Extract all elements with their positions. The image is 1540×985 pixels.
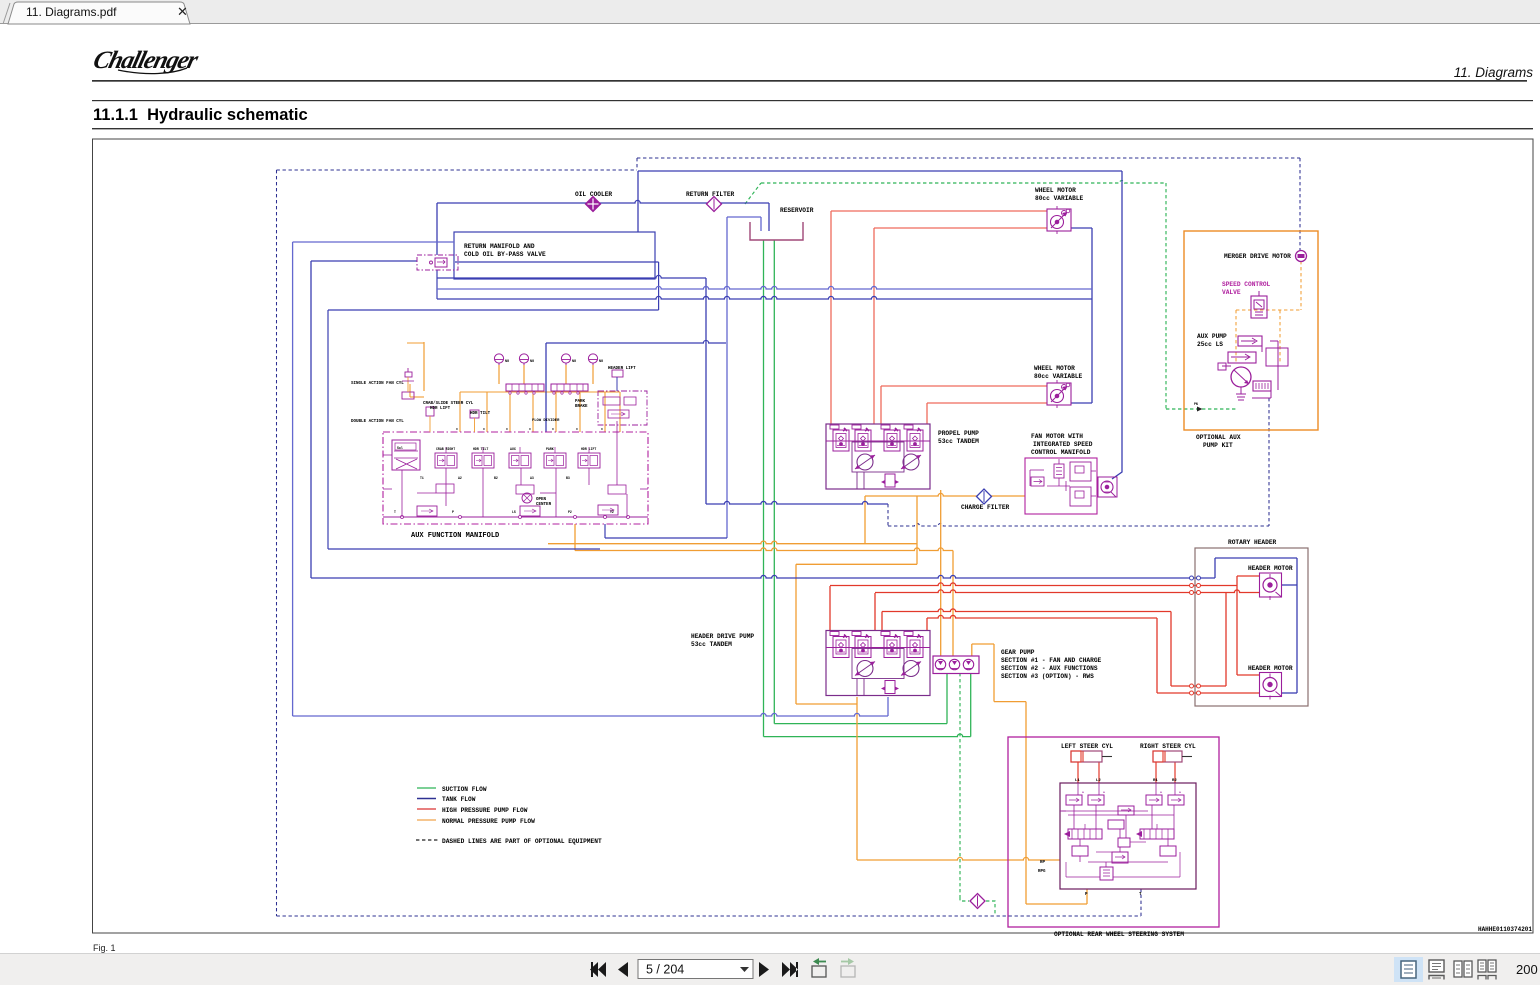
svg-text:RPG: RPG bbox=[1038, 870, 1046, 874]
svg-text:A3: A3 bbox=[530, 476, 534, 480]
svg-text:HEADER MOTOR: HEADER MOTOR bbox=[1248, 565, 1293, 572]
svg-text:DOUBLE ACTION FAN CYL: DOUBLE ACTION FAN CYL bbox=[351, 420, 404, 424]
svg-text:GEAR PUMP: GEAR PUMP bbox=[1001, 649, 1035, 656]
svg-text:PUMP KIT: PUMP KIT bbox=[1203, 442, 1233, 449]
svg-text:a: a bbox=[1160, 791, 1162, 794]
svg-text:a: a bbox=[1103, 791, 1105, 794]
svg-text:PARK: PARK bbox=[546, 447, 554, 451]
svg-text:RESERVOIR: RESERVOIR bbox=[780, 207, 814, 214]
svg-text:HDR LIFT: HDR LIFT bbox=[581, 447, 596, 451]
svg-text:PARK: PARK bbox=[575, 400, 586, 404]
svg-text:53cc TANDEM: 53cc TANDEM bbox=[691, 641, 732, 648]
svg-text:LEFT STEER CYL: LEFT STEER CYL bbox=[1061, 743, 1113, 750]
svg-text:OIL COOLER: OIL COOLER bbox=[575, 191, 612, 198]
svg-text:5 / 204: 5 / 204 bbox=[646, 963, 684, 977]
svg-text:200: 200 bbox=[1516, 962, 1538, 977]
svg-text:X: X bbox=[456, 428, 458, 431]
svg-text:80cc VARIABLE: 80cc VARIABLE bbox=[1034, 373, 1083, 380]
svg-text:Sol: Sol bbox=[397, 446, 403, 450]
svg-text:LS: LS bbox=[512, 510, 516, 514]
svg-text:NG: NG bbox=[572, 360, 576, 364]
svg-text:NG: NG bbox=[505, 360, 509, 364]
svg-text:R1: R1 bbox=[1153, 779, 1158, 783]
svg-text:AUX FUNCTION MANIFOLD: AUX FUNCTION MANIFOLD bbox=[411, 532, 499, 540]
svg-text:OPTIONAL REAR WHEEL STEERING S: OPTIONAL REAR WHEEL STEERING SYSTEM bbox=[1054, 931, 1184, 938]
svg-text:R2: R2 bbox=[1172, 779, 1177, 783]
svg-text:B2: B2 bbox=[494, 476, 498, 480]
svg-text:NORMAL PRESSURE PUMP FLOW: NORMAL PRESSURE PUMP FLOW bbox=[442, 818, 535, 825]
svg-text:RETURN FILTER: RETURN FILTER bbox=[686, 191, 735, 198]
svg-text:RIGHT STEER CYL: RIGHT STEER CYL bbox=[1140, 743, 1196, 750]
svg-text:HIGH PRESSURE PUMP FLOW: HIGH PRESSURE PUMP FLOW bbox=[442, 807, 528, 814]
svg-text:T2: T2 bbox=[610, 510, 614, 514]
svg-text:A2: A2 bbox=[458, 476, 462, 480]
svg-text:a: a bbox=[1082, 791, 1084, 794]
svg-text:X: X bbox=[529, 428, 531, 431]
svg-text:HEADER MOTOR: HEADER MOTOR bbox=[1248, 665, 1293, 672]
svg-text:a: a bbox=[1179, 791, 1181, 794]
svg-text:SINGLE ACTION FAN CYL: SINGLE ACTION FAN CYL bbox=[351, 382, 404, 386]
svg-text:ROTARY HEADER: ROTARY HEADER bbox=[1228, 539, 1277, 546]
svg-text:CRAB/SLIDE STEER CYL: CRAB/SLIDE STEER CYL bbox=[423, 401, 474, 406]
svg-text:TANK FLOW: TANK FLOW bbox=[442, 796, 476, 803]
svg-text:RP: RP bbox=[1040, 861, 1046, 865]
svg-text:HDR TILT: HDR TILT bbox=[470, 412, 491, 416]
svg-text:X: X bbox=[552, 428, 554, 431]
svg-text:T: T bbox=[394, 510, 396, 514]
svg-text:OPEN: OPEN bbox=[536, 498, 547, 502]
svg-text:RETURN MANIFOLD AND: RETURN MANIFOLD AND bbox=[464, 243, 535, 250]
svg-text:T: T bbox=[1139, 893, 1142, 897]
svg-text:HAHHE0110374201: HAHHE0110374201 bbox=[1478, 926, 1532, 933]
svg-text:WHEEL MOTOR: WHEEL MOTOR bbox=[1035, 187, 1076, 194]
svg-text:80cc VARIABLE: 80cc VARIABLE bbox=[1035, 195, 1084, 202]
svg-text:X: X bbox=[506, 428, 508, 431]
svg-text:53cc TANDEM: 53cc TANDEM bbox=[938, 438, 979, 445]
svg-text:X: X bbox=[483, 428, 485, 431]
svg-text:OPTIONAL AUX: OPTIONAL AUX bbox=[1196, 434, 1241, 441]
svg-text:SPEED CONTROL: SPEED CONTROL bbox=[1222, 281, 1271, 288]
svg-text:WHEEL MOTOR: WHEEL MOTOR bbox=[1034, 365, 1075, 372]
svg-text:FLOW DIVIDER: FLOW DIVIDER bbox=[532, 419, 560, 423]
svg-text:HEADER DRIVE PUMP: HEADER DRIVE PUMP bbox=[691, 633, 754, 640]
svg-text:NG: NG bbox=[530, 360, 534, 364]
svg-text:L2: L2 bbox=[1096, 779, 1101, 783]
svg-text:HDR LIFT: HDR LIFT bbox=[430, 407, 451, 411]
svg-text:HDR TILT: HDR TILT bbox=[473, 447, 488, 451]
svg-text:SUCTION FLOW: SUCTION FLOW bbox=[442, 786, 487, 793]
svg-text:PROPEL PUMP: PROPEL PUMP bbox=[938, 430, 979, 437]
svg-text:PN: PN bbox=[1194, 402, 1198, 406]
svg-text:P: P bbox=[452, 510, 454, 514]
svg-text:SECTION #2 - AUX FUNCTIONS: SECTION #2 - AUX FUNCTIONS bbox=[1001, 665, 1098, 672]
svg-text:CRAB RIGHT: CRAB RIGHT bbox=[436, 447, 455, 451]
svg-text:VALVE: VALVE bbox=[1222, 289, 1241, 296]
svg-text:INTEGRATED SPEED: INTEGRATED SPEED bbox=[1033, 441, 1093, 448]
svg-text:X: X bbox=[601, 428, 603, 431]
svg-text:HEADER LIFT: HEADER LIFT bbox=[608, 367, 636, 371]
svg-text:L1: L1 bbox=[1075, 779, 1080, 783]
svg-text:COLD OIL BY-PASS VALVE: COLD OIL BY-PASS VALVE bbox=[464, 251, 546, 258]
svg-text:CONTROL MANIFOLD: CONTROL MANIFOLD bbox=[1031, 449, 1091, 456]
svg-text:MERGER DRIVE MOTOR: MERGER DRIVE MOTOR bbox=[1224, 253, 1291, 260]
svg-text:FAN MOTOR WITH: FAN MOTOR WITH bbox=[1031, 433, 1083, 440]
svg-text:25cc LS: 25cc LS bbox=[1197, 341, 1223, 348]
svg-text:DASHED LINES ARE PART OF OPTIO: DASHED LINES ARE PART OF OPTIONAL EQUIPM… bbox=[442, 838, 602, 845]
svg-text:T1: T1 bbox=[420, 476, 424, 480]
svg-text:CHARGE FILTER: CHARGE FILTER bbox=[961, 504, 1010, 511]
svg-text:SECTION #3 (OPTION) - RWS: SECTION #3 (OPTION) - RWS bbox=[1001, 673, 1094, 680]
svg-text:X: X bbox=[576, 428, 578, 431]
svg-text:AUX: AUX bbox=[510, 447, 516, 451]
svg-text:SECTION #1 - FAN AND CHARGE: SECTION #1 - FAN AND CHARGE bbox=[1001, 657, 1102, 664]
svg-text:BRAKE: BRAKE bbox=[575, 405, 588, 409]
svg-text:AUX PUMP: AUX PUMP bbox=[1197, 333, 1227, 340]
svg-text:P2: P2 bbox=[568, 510, 572, 514]
svg-text:NG: NG bbox=[599, 360, 603, 364]
svg-text:B3: B3 bbox=[566, 476, 570, 480]
svg-text:CENTER: CENTER bbox=[536, 503, 552, 507]
